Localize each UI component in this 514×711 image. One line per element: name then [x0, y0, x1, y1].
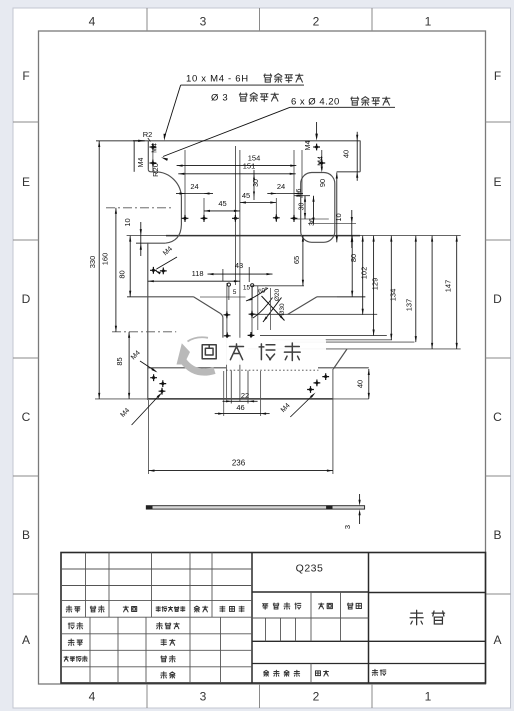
- hole center marks: [150, 144, 330, 395]
- dim 160: [101, 208, 118, 332]
- dim 30 right tab: [299, 196, 307, 219]
- dim 30 center: [253, 170, 260, 200]
- label pizhun: [161, 672, 175, 679]
- part name chedi: [410, 610, 445, 625]
- label M4 left tab a: [138, 158, 145, 168]
- svg-text:1: 1: [425, 690, 432, 704]
- dim 6: [294, 188, 310, 196]
- weld detail cross lines: [262, 296, 285, 322]
- M4 leader mid-left: [155, 245, 178, 274]
- left tab left edge: [133, 141, 135, 172]
- callout 10xM4-6H thread note: [164, 74, 305, 141]
- left step edge y243: [136, 242, 165, 244]
- title block left table columns lower: [90, 617, 221, 683]
- svg-text:E: E: [22, 175, 30, 189]
- dim 10 right: [334, 210, 353, 248]
- mid edge y314: [255, 313, 378, 315]
- extension y349: [248, 348, 461, 350]
- M4 leader arrow right tab a: [315, 122, 318, 141]
- svg-text:30: 30: [253, 179, 260, 187]
- callout diameter 3 note: [211, 93, 278, 104]
- dim 24 left: [176, 182, 213, 195]
- title block left table columns upper: [86, 553, 213, 618]
- svg-text:24: 24: [190, 182, 198, 191]
- dim 45 right: [240, 191, 276, 204]
- svg-text:6: 6: [296, 188, 303, 192]
- zone ticks right band: [486, 122, 511, 594]
- dim 10 left: [123, 218, 142, 256]
- M4 leader bottom-right: [280, 393, 316, 418]
- extension y339.8: [272, 339, 392, 341]
- hidden edge dotted y370: [226, 369, 318, 371]
- dim 137: [405, 236, 417, 343]
- dim line x432: [431, 236, 433, 349]
- svg-text:45: 45: [242, 191, 250, 200]
- svg-text:65: 65: [292, 256, 301, 264]
- svg-text:A: A: [493, 633, 501, 647]
- svg-text:Ø30: Ø30: [279, 303, 286, 316]
- weld detail edge y286: [251, 285, 304, 287]
- R20 fillet and stem: [155, 172, 181, 243]
- svg-text:F: F: [494, 69, 501, 83]
- svg-text:B: B: [22, 528, 30, 542]
- title block main separators: [252, 553, 369, 684]
- body top edge y235.6: [127, 235, 461, 237]
- title block outer border: [61, 553, 486, 684]
- zone ticks left band: [13, 122, 39, 594]
- svg-text:147: 147: [443, 280, 452, 293]
- right edge y223.5: [308, 223, 356, 225]
- svg-text:M4: M4: [305, 141, 312, 151]
- dim 3 bar thickness: [343, 494, 361, 529]
- right tab hole row line y219: [294, 218, 329, 220]
- label R20: [151, 163, 160, 177]
- svg-text:B: B: [493, 528, 501, 542]
- center vertical x227: [226, 283, 228, 337]
- right extension y297: [337, 296, 365, 298]
- M4 leader bottom-left b: [119, 393, 162, 426]
- label zhongliang: [319, 603, 333, 609]
- zone numbers top: [89, 15, 432, 29]
- extension y342: [290, 341, 414, 343]
- svg-text:Ø 3: Ø 3: [211, 93, 228, 104]
- zone letters left: [22, 69, 31, 647]
- top right tab edges: [337, 141, 361, 172]
- material Q235: [296, 563, 324, 575]
- svg-text:151: 151: [243, 161, 256, 170]
- dim 85: [115, 332, 130, 399]
- svg-text:3: 3: [343, 525, 352, 529]
- left tab right edge with R2 corner: [148, 141, 155, 172]
- dim 90: [318, 173, 338, 243]
- dim 22: [223, 391, 258, 402]
- title block left table rows: [61, 569, 252, 667]
- weld detail leader arc: [246, 288, 268, 301]
- svg-text:24: 24: [277, 182, 285, 191]
- label chushu: [90, 606, 104, 612]
- dim 65: [292, 236, 304, 286]
- weld detail second arc: [253, 298, 273, 319]
- label tidai: [372, 669, 386, 675]
- dim 236: [149, 459, 333, 472]
- left bend line y297 with chamfer: [127, 297, 223, 338]
- dim 80 left: [118, 236, 132, 297]
- watermark text tu-wen-she-ji: [202, 343, 300, 361]
- extension y335.5: [260, 335, 387, 337]
- dim 134: [388, 236, 397, 340]
- center vertical x240: [239, 150, 241, 401]
- svg-text:15: 15: [243, 285, 251, 292]
- zone letters right: [493, 69, 502, 647]
- dim 80 right: [349, 236, 358, 297]
- svg-text:137: 137: [405, 299, 414, 312]
- label sheji: [68, 623, 83, 630]
- label genggai-wenjianhao: [156, 607, 185, 612]
- extension x260.6: [260, 371, 262, 416]
- label gongyi: [161, 639, 175, 645]
- svg-text:4: 4: [89, 690, 96, 704]
- bottom tab edge x248: [247, 371, 249, 404]
- zone ticks top band: [147, 8, 372, 31]
- centerline upper: [106, 207, 171, 209]
- svg-text:134: 134: [388, 289, 397, 302]
- watermark logo swoosh: [177, 337, 215, 372]
- svg-text:40: 40: [356, 380, 365, 388]
- svg-text:C: C: [22, 410, 31, 424]
- rounded tab right: [301, 173, 335, 243]
- label M4 left tab b: [152, 143, 159, 153]
- bottom tab edge x231: [230, 371, 232, 404]
- label M4 right tab b: [318, 156, 325, 166]
- dim 24 right: [267, 182, 303, 195]
- svg-text:10: 10: [334, 213, 343, 221]
- label gongzhang-dizhang: [264, 670, 300, 676]
- watermark band: [180, 338, 327, 365]
- svg-text:A: A: [22, 633, 30, 647]
- centerline lower: [112, 331, 176, 333]
- svg-text:118: 118: [192, 269, 204, 278]
- label jiaohe: [68, 639, 82, 646]
- label shenhe: [161, 656, 175, 663]
- left extension to 236 dim: [148, 400, 150, 474]
- zone ticks bottom band: [147, 684, 372, 708]
- svg-text:45: 45: [218, 199, 226, 208]
- part top edge y141: [96, 140, 361, 142]
- svg-text:129: 129: [371, 278, 380, 291]
- svg-text:90: 90: [318, 179, 327, 187]
- dim 102: [360, 236, 369, 315]
- callout 6x diameter 4.20 note: [161, 97, 395, 161]
- dim 40 top right: [342, 132, 359, 181]
- label biaozhunhua: [156, 623, 179, 630]
- svg-text:5: 5: [233, 289, 237, 296]
- label fenqu: [123, 606, 136, 612]
- center vertical x252: [251, 286, 253, 337]
- weld detail labels: [233, 285, 286, 316]
- label M4 right tab a: [305, 141, 312, 151]
- label jieduanbiaoji: [263, 603, 301, 610]
- svg-text:2: 2: [313, 690, 320, 704]
- dim 129: [371, 236, 380, 336]
- M4 leader bottom-left a: [130, 349, 157, 372]
- dim 118: [148, 269, 240, 282]
- part right lower edge x333: [332, 369, 334, 474]
- svg-text:3: 3: [200, 690, 207, 704]
- hole extension x185: [184, 150, 186, 222]
- dim 154: [177, 153, 297, 166]
- svg-text:2: 2: [313, 15, 320, 29]
- title block middle columns: [266, 592, 341, 683]
- label biaoji: [66, 606, 80, 612]
- hole extension x153: [152, 143, 154, 172]
- right bend line y297 with chamfer: [288, 297, 366, 315]
- dim 46: [215, 403, 270, 415]
- drawing frame: [39, 31, 486, 684]
- hole extension x294: [293, 150, 295, 222]
- dim 36 right tab: [309, 196, 316, 226]
- svg-text:R2: R2: [143, 130, 153, 139]
- arrow at tab top: [133, 140, 145, 142]
- dim 40 bottom right: [356, 369, 370, 399]
- label zhuguansheji: [64, 656, 87, 661]
- svg-text:80: 80: [349, 254, 358, 262]
- label nianyueri: [220, 606, 244, 612]
- lower edge y368: [148, 367, 369, 369]
- svg-text:102: 102: [360, 267, 369, 280]
- hole extension x302: [301, 150, 303, 198]
- zone numbers bottom: [89, 690, 432, 704]
- svg-text:80: 80: [118, 270, 127, 278]
- label R2: [143, 130, 153, 142]
- hole extension x204: [203, 198, 205, 222]
- svg-text:330: 330: [88, 256, 97, 269]
- extension x257.8: [257, 286, 259, 330]
- M4 leader arrow right tab b: [321, 150, 323, 173]
- svg-text:E: E: [493, 175, 501, 189]
- dim 45 left: [204, 199, 240, 212]
- svg-text:3: 3: [200, 15, 207, 29]
- svg-text:43: 43: [235, 261, 243, 270]
- svg-text:236: 236: [232, 459, 246, 468]
- center vertex line y297: [200, 296, 246, 298]
- part left edge x148: [147, 243, 149, 400]
- label bili: [347, 603, 361, 609]
- svg-text:4: 4: [89, 15, 96, 29]
- center vertical x235: [234, 146, 236, 285]
- dim 330: [88, 141, 100, 399]
- body bottom edge y399: [95, 398, 369, 400]
- weld detail circle stems: [229, 286, 252, 300]
- svg-text:F: F: [22, 69, 29, 83]
- svg-text:D: D: [493, 292, 502, 306]
- svg-text:40: 40: [342, 150, 351, 158]
- hole extension x276: [275, 198, 277, 222]
- dim 147: [443, 236, 457, 349]
- svg-text:10 x M4 - 6H: 10 x M4 - 6H: [186, 74, 249, 85]
- svg-text:22: 22: [241, 391, 249, 400]
- svg-text:10: 10: [123, 218, 132, 226]
- dim 151: [178, 161, 295, 175]
- svg-text:6 x Ø 4.20: 6 x Ø 4.20: [291, 97, 340, 108]
- notch extension x226.6: [226, 337, 228, 400]
- svg-text:1: 1: [425, 15, 432, 29]
- dim 43: [208, 261, 273, 282]
- extension x223.7: [223, 371, 225, 416]
- weld detail stem x270: [270, 288, 272, 330]
- side view bar: [146, 505, 364, 509]
- svg-text:Q235: Q235: [296, 563, 324, 575]
- weld detail circles: [227, 283, 254, 287]
- label qianming: [194, 606, 207, 612]
- right diagonal edge: [333, 349, 347, 369]
- label banben: [315, 671, 328, 677]
- svg-text:36: 36: [309, 218, 316, 226]
- svg-text:30: 30: [299, 203, 306, 211]
- svg-text:D: D: [22, 292, 31, 306]
- title block middle rows: [252, 592, 486, 664]
- svg-text:M4: M4: [138, 158, 145, 168]
- svg-text:85: 85: [115, 357, 124, 365]
- svg-text:160: 160: [101, 253, 110, 266]
- svg-text:C: C: [493, 410, 502, 424]
- svg-text:46: 46: [236, 403, 244, 412]
